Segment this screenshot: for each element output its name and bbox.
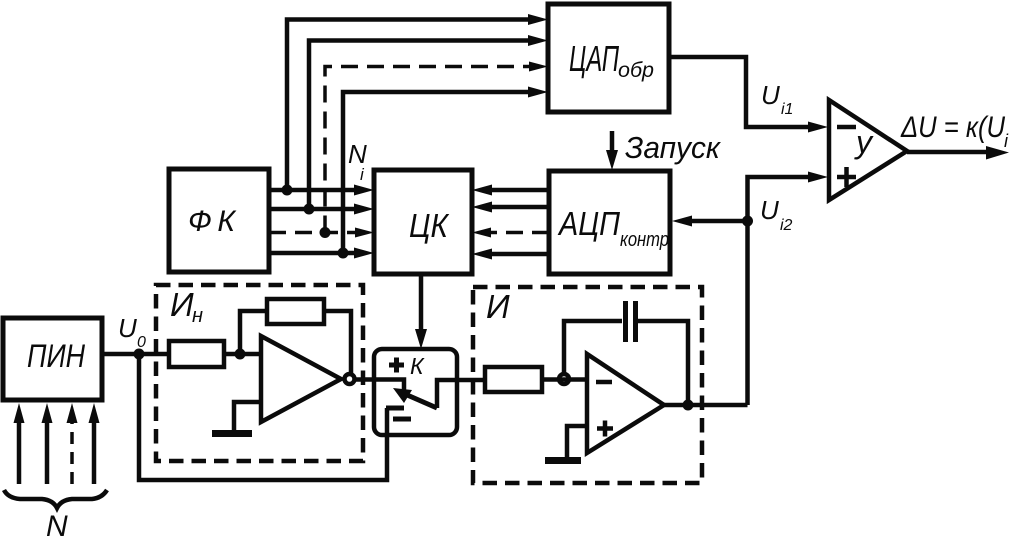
node И inverting input circle [559,374,569,384]
junction Ин summing node [235,349,246,360]
wire U0 to R1 [139,352,169,357]
svg-text:К: К [410,353,425,379]
junction bit3 [320,227,331,238]
resistor R1 (Ин input) [169,341,224,367]
ПИН input arrow 2 [42,403,53,484]
node Ni label [348,139,367,184]
wire АЦПконтр to ЦК bit4 [472,249,549,260]
svg-text:ЦК: ЦК [409,207,449,244]
wire feedback left Ин [240,311,267,354]
block ЦК [374,170,472,274]
block ADC АЦПконтр [549,171,670,274]
resistor R2 (Ин feedback) [267,299,324,324]
wire И output [664,403,748,408]
svg-text:Запуск: Запуск [625,130,721,165]
wire Ин output to К [355,377,375,382]
ground И [545,426,587,461]
svg-text:N: N [348,139,367,169]
wire U0 bottom route to К minus input [139,354,387,480]
svg-text:i1: i1 [781,101,793,118]
block ФК [169,169,269,272]
wire to АЦПконтр analog input [672,216,748,227]
wire К output to R3 [457,378,485,383]
svg-text:0: 0 [137,334,146,351]
node Ин output circle [345,374,355,384]
op-amp И [587,354,664,453]
junction bit2 [304,204,315,215]
wire ЦК control to К switch [415,274,427,349]
op-amp Ин [261,336,341,422]
svg-text:у: у [854,124,874,160]
svg-text:U: U [761,80,780,110]
junction bit4 [338,248,349,259]
block К comparator/switch [374,349,457,435]
wire R1 to op-amp [224,352,261,357]
dashed box Ин [156,285,363,461]
svg-text:U: U [118,313,137,343]
capacitor C1 plate right [633,301,638,342]
wire И feedback right [636,321,689,405]
svg-text:ЦАП: ЦАП [569,38,620,79]
brace under ПИН inputs [4,490,107,508]
label Ui2 [760,195,793,234]
svg-text:н: н [192,305,203,327]
wire К minus stub [385,408,390,435]
wire bit2 riser to ЦАПобр [309,35,548,209]
junction node Ui2 [742,216,753,227]
block DAC ЦАПобр [548,4,669,112]
resistor R3 (И input) [485,367,542,392]
svg-text:N: N [46,510,68,543]
ПИН input arrow 4 [89,403,100,484]
wire И output riser to У noninverting input [748,172,829,406]
svg-text:И: И [170,286,194,323]
svg-text:ПИН: ПИН [27,338,86,374]
label Ui1 [761,80,793,118]
ПИН input arrow 1 [14,403,25,484]
svg-text:обр: обр [618,59,654,82]
wire bit4 riser to ЦАПобр [343,87,548,254]
wire АЦПконтр to ЦК bit3 (dashed) [472,228,549,238]
wire bit3 riser to ЦАПобр (dashed) [325,62,548,233]
svg-text:U: U [760,195,779,225]
wire bus bit4 ФК to ЦК [269,248,374,259]
label U0 [118,313,146,351]
wire ПИН output [102,352,139,357]
ground Ин [212,402,261,434]
ПИН input arrow 3 (dashed) [67,403,78,484]
wire АЦПконтр to ЦК bit2 [472,202,549,213]
wire bus bit3 (dashed) ФК to ЦК [269,228,374,238]
svg-text:i2: i2 [780,217,793,234]
junction И output feedback [683,400,694,411]
junction bit1 [282,185,293,196]
wire bus bit1 ФК to ЦК [269,185,374,196]
block ПИН [3,318,102,400]
wire feedback right Ин [324,311,351,374]
svg-text:ΔU = к(U: ΔU = к(U [900,111,1005,144]
wire R3 to И op-amp [542,377,587,382]
wire И feedback left [564,321,622,374]
label ΔU = к(Ui [900,111,1009,151]
wire ЦАПобр output to У inverting input [669,57,828,133]
capacitor C1 plate left [623,301,628,342]
svg-text:И: И [486,288,510,325]
svg-text:i: i [1004,131,1009,151]
dashed box И [473,287,702,483]
wire bus bit2 ФК to ЦК [269,204,374,215]
op-amp У [829,100,907,200]
Запуск trigger arrow [606,130,721,170]
wire bit1 riser to ЦАПобр [287,14,548,190]
svg-text:ФК: ФК [188,205,237,238]
svg-text:АЦП: АЦП [557,205,620,242]
wire АЦПконтр to ЦК bit1 [472,185,549,196]
wire У output [907,146,1009,160]
node U0 [134,349,145,360]
svg-text:контр: контр [620,229,669,251]
